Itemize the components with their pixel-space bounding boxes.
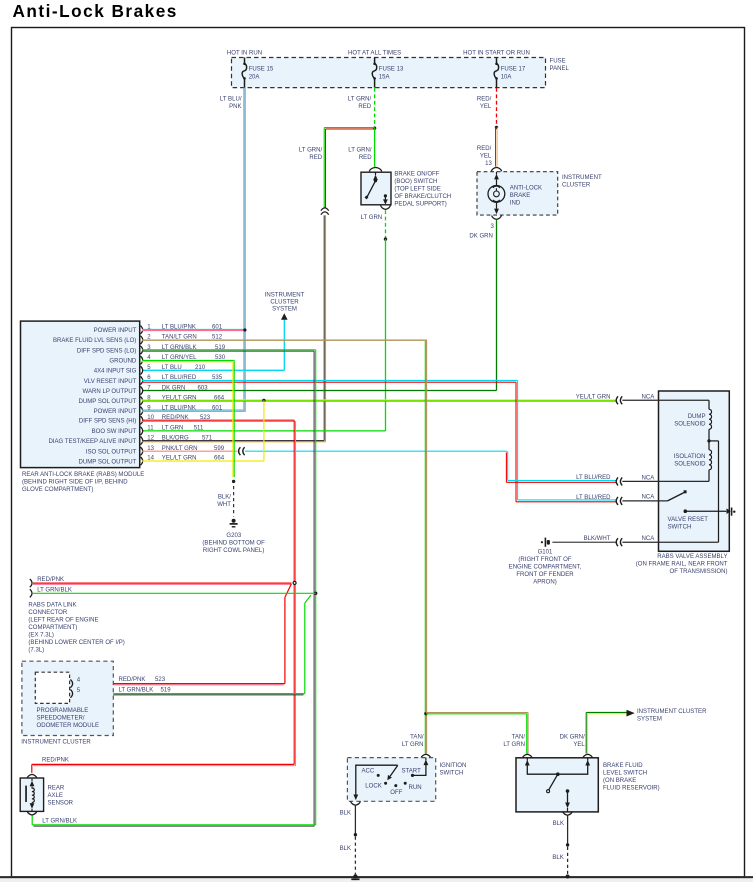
wire isolation solenoid vertical pair: [506, 451, 507, 482]
wire BLK/ORG 571 row pin 12: [142, 441, 326, 442]
svg-text:FUSE 17: FUSE 17: [501, 67, 526, 73]
svg-text:BLK/: BLK/: [218, 495, 231, 501]
label G101 (RIGHT FRONT OF ENGINE COMPARTMENT FRONT OF FENDER APRON): [509, 550, 582, 586]
label RUN: [409, 785, 422, 791]
label HOT IN START OR RUN: [463, 51, 530, 57]
module RABS rear anti-lock brake module: [21, 321, 140, 468]
svg-text:YEL: YEL: [480, 104, 492, 110]
coil dump solenoid: [709, 400, 712, 450]
wire LT GRN/BLK 519 to speedometer pin 5: [75, 694, 304, 695]
wire LT GRN/RED pair from splice to left: [324, 128, 374, 209]
inline connector BLK/WHT NCA: [616, 538, 622, 546]
svg-text:GLOVE COMPARTMENT): GLOVE COMPARTMENT): [22, 487, 93, 493]
pin 5 of speedometer module: [70, 688, 80, 698]
label BLK/WHT at G101: [584, 536, 611, 542]
svg-text:SWITCH: SWITCH: [668, 525, 692, 531]
svg-text:BRAKE FLUID LVL SENS (LO): BRAKE FLUID LVL SENS (LO): [53, 338, 136, 344]
svg-text:LT GRN/: LT GRN/: [348, 96, 372, 102]
label RABS DATA LINK CONNECTOR caption: [28, 603, 124, 654]
label DK GRN below indicator: [469, 233, 493, 239]
wire LT GRN/BLK to rear axle sensor bottom: [32, 815, 316, 826]
wire BLK/ORG 571 vertical to module pin 12: [324, 215, 325, 441]
wire LT BLU/RED 535 row pin 6: [142, 380, 518, 382]
svg-text:LT GRN/: LT GRN/: [299, 148, 323, 154]
svg-text:SPEEDOMETER/: SPEEDOMETER/: [37, 716, 85, 722]
svg-text:YEL: YEL: [480, 153, 492, 159]
svg-text:LT GRN: LT GRN: [162, 426, 184, 432]
svg-text:PEDAL SUPPORT): PEDAL SUPPORT): [394, 202, 446, 208]
svg-text:523: 523: [155, 677, 166, 683]
svg-text:FUSE: FUSE: [550, 59, 566, 65]
fuse panel box: [232, 58, 546, 88]
label IGNITION SWITCH: [440, 763, 467, 777]
wire LT BLU/RED vertical to valve reset switch: [516, 380, 518, 501]
wire LT GRN 511 down to module pin 11: [142, 239, 386, 431]
pin 5 of RABS module, 4X4 INPUT SIG, wire LT BLU 210: [94, 365, 206, 375]
svg-text:CLUSTER: CLUSTER: [270, 300, 299, 306]
fuse F15 FUSE 15 20A: [242, 58, 274, 88]
label INSTRUMENT CLUSTER SYSTEM bottom right: [637, 709, 707, 723]
svg-text:BLK: BLK: [552, 855, 563, 861]
label DUMP SOLENOID: [674, 414, 706, 428]
pin 6 of RABS module, VLV RESET INPUT, wire LT BLU/RED 535: [84, 375, 223, 385]
svg-text:ODOMETER MODULE: ODOMETER MODULE: [37, 723, 100, 729]
svg-text:REAR ANTI-LOCK BRAKE (RABS) MO: REAR ANTI-LOCK BRAKE (RABS) MODULE: [22, 472, 144, 478]
svg-text:FRONT OF FENDER: FRONT OF FENDER: [516, 572, 574, 578]
svg-text:FUSE 13: FUSE 13: [379, 67, 404, 73]
label START: [402, 769, 422, 775]
label INSTRUMENT CLUSTER at speedometer: [21, 740, 91, 746]
fuse F17 FUSE 17 10A: [494, 58, 526, 88]
svg-text:OF TRANSMISSION): OF TRANSMISSION): [669, 569, 727, 575]
junction splice on pin 8 wire: [262, 399, 265, 402]
svg-text:ISOLATION: ISOLATION: [674, 454, 706, 460]
label LT GRN/RED at fuse 13: [348, 96, 372, 110]
wire BLK/WHT dashed to G203: [233, 486, 235, 517]
svg-text:RED/PNK: RED/PNK: [37, 577, 64, 583]
label TAN/LT GRN at brake fluid switch: [503, 735, 525, 749]
label RED/PNK at data link: [37, 577, 64, 583]
pin 14 of RABS module, DUMP SOL OUTPUT, wire YEL/LT GRN 664: [79, 456, 225, 466]
svg-text:RABS VALVE ASSEMBLY: RABS VALVE ASSEMBLY: [657, 554, 727, 560]
svg-text:(LEFT REAR OF ENGINE: (LEFT REAR OF ENGINE: [28, 618, 98, 624]
svg-text:Anti-Lock Brakes: Anti-Lock Brakes: [13, 1, 178, 21]
wire PNK/LT GRN 599 row pin 13: [142, 450, 237, 452]
ground G203: [230, 519, 238, 527]
label LT GRN/BLK at rear axle sensor: [42, 819, 77, 825]
svg-text:DIAG TEST/KEEP ALIVE INPUT: DIAG TEST/KEEP ALIVE INPUT: [48, 439, 136, 445]
svg-text:NCA: NCA: [642, 395, 656, 401]
svg-text:DUMP: DUMP: [688, 414, 706, 420]
svg-text:LT GRN: LT GRN: [503, 742, 525, 748]
wire RED/PNK from data link connector: [33, 583, 291, 584]
svg-text:START: START: [402, 769, 422, 775]
wire isolation solenoid pair to connector: [506, 481, 616, 483]
label OFF: [390, 790, 402, 796]
label RED/YEL at indicator: [477, 146, 492, 160]
svg-text:601: 601: [212, 406, 223, 412]
wire LT GRN/YEL vertical to G203: [233, 360, 234, 477]
svg-text:BRAKE FLUID: BRAKE FLUID: [603, 763, 643, 769]
connector arc at BOO switch bottom: [381, 206, 391, 210]
wire TAN/LT GRN vertical to ignition switch: [425, 340, 426, 753]
label LT GRN/BLK 519 at speedometer: [119, 688, 172, 694]
module speedometer inner connector box: [35, 672, 69, 703]
connector arc at indicator top: [491, 167, 501, 171]
svg-text:20A: 20A: [249, 74, 261, 80]
svg-text:G203: G203: [226, 533, 241, 539]
svg-text:BRAKE ON/OFF: BRAKE ON/OFF: [394, 172, 439, 178]
wire TAN/LT GRN to brake fluid level switch: [426, 713, 528, 754]
label BLK/WHT at G203: [217, 495, 231, 509]
label RED/YEL at fuse 17: [477, 96, 492, 110]
wire NCA to dump solenoid: [622, 399, 709, 401]
wire RED/YEL dashed from fuse 17: [496, 88, 498, 127]
pin 4 of speedometer module: [70, 678, 80, 688]
svg-text:DUMP SOL OUTPUT: DUMP SOL OUTPUT: [79, 399, 137, 405]
label PROGRAMMABLE SPEEDOMETER/ODOMETER MODULE: [37, 708, 100, 729]
wire LT BLU/PNK 601 row pin 9: [142, 410, 246, 411]
switch ignition switch box: [347, 758, 435, 802]
wire LT BLU/PNK 601 vertical from fuse 15: [244, 88, 245, 412]
pin 11 of RABS module, BOO SW INPUT, wire LT GRN 511: [92, 426, 204, 436]
connector arc at brake fluid switch left top: [522, 754, 532, 758]
svg-text:LT GRN: LT GRN: [361, 215, 383, 221]
label BLK at ignition switch: [340, 810, 351, 816]
pin 1 of RABS module, POWER INPUT, wire LT BLU/PNK 601: [94, 325, 223, 335]
wire RED/YEL pair to anti-lock brake indicator pin 13: [496, 128, 498, 167]
svg-text:FUSE 15: FUSE 15: [249, 67, 274, 73]
inline connector dump solenoid NCA: [616, 396, 622, 404]
label TAN/LT GRN at ignition switch: [402, 735, 424, 749]
pin 3 of RABS module, DIFF SPD SENS (LO), wire LT GRN/BLK 519: [77, 345, 226, 355]
label HOT IN RUN: [227, 51, 262, 57]
svg-text:(BOO) SWITCH: (BOO) SWITCH: [394, 179, 437, 185]
label INSTRUMENT CLUSTER at indicator: [562, 175, 602, 189]
wire LT GRN/RED to BOO switch: [374, 128, 376, 167]
svg-text:(EX 7.3L): (EX 7.3L): [28, 633, 54, 639]
label ISOLATION SOLENOID: [674, 454, 706, 468]
inline connector on LT GRN/RED to BLK/ORG: [321, 208, 329, 215]
svg-text:(RIGHT FRONT OF: (RIGHT FRONT OF: [518, 557, 571, 563]
svg-text:DK GRN/: DK GRN/: [560, 735, 586, 741]
svg-text:BLK/WHT: BLK/WHT: [584, 536, 611, 542]
connector arc at rear axle sensor bottom: [27, 811, 37, 815]
connector pin RED/PNK data link: [30, 579, 32, 587]
svg-text:LT GRN: LT GRN: [402, 742, 424, 748]
svg-text:YEL: YEL: [573, 742, 585, 748]
label LT GRN/BLK at data link: [37, 588, 72, 594]
wire branch to ground side of solenoids: [709, 441, 719, 542]
svg-text:(TOP LEFT SIDE: (TOP LEFT SIDE: [394, 187, 440, 193]
label RABS VALVE ASSEMBLY caption: [636, 554, 728, 575]
label REAR ANTI-LOCK BRAKE (RABS) MODULE caption: [22, 472, 144, 493]
svg-text:SOLENOID: SOLENOID: [674, 422, 706, 428]
wire RED/PNK vertical to rear axle sensor: [294, 420, 295, 766]
junction splice on brake fluid BLK: [566, 843, 569, 846]
svg-text:IGNITION: IGNITION: [440, 763, 467, 769]
svg-text:SYSTEM: SYSTEM: [272, 307, 297, 313]
wire YEL/LT GRN 664 row pin 8 to dump solenoid: [142, 400, 617, 401]
svg-text:LT GRN/BLK: LT GRN/BLK: [42, 819, 77, 825]
svg-text:PANEL: PANEL: [550, 66, 570, 72]
svg-text:CONNECTOR: CONNECTOR: [28, 610, 67, 616]
svg-text:DK GRN: DK GRN: [469, 233, 493, 239]
wire LT GRN/BLK from data link connector: [33, 592, 316, 594]
connector arc at indicator bottom: [492, 216, 502, 220]
svg-text:511: 511: [194, 426, 204, 432]
svg-text:SOLENOID: SOLENOID: [674, 462, 706, 468]
label VALVE RESET SWITCH: [668, 517, 709, 531]
wire BLK/WHT from G101 to connector: [552, 541, 615, 543]
switch S1 brake on/off BOO switch: [361, 172, 391, 205]
connector pin LT GRN/BLK data link: [30, 589, 32, 597]
svg-text:RUN: RUN: [409, 785, 422, 791]
svg-text:OF BRAKE/CLUTCH: OF BRAKE/CLUTCH: [394, 194, 451, 200]
svg-text:RED/: RED/: [477, 146, 492, 152]
pin 4 of RABS module, GROUND, wire LT GRN/YEL 530: [109, 355, 225, 365]
wire DK GRN 603 from indicator to module pin 7: [142, 220, 497, 390]
svg-text:519: 519: [161, 688, 172, 694]
label BLK lower brake fluid: [552, 855, 563, 861]
pin 3 label of indicator: [491, 224, 495, 230]
junction splice at data link LT GRN/BLK: [314, 592, 317, 595]
label LT GRN below BOO switch: [361, 215, 383, 221]
svg-text:DIFF SPD SENS (HI): DIFF SPD SENS (HI): [79, 419, 136, 425]
svg-text:(BEHIND LOWER CENTER OF I/P): (BEHIND LOWER CENTER OF I/P): [28, 640, 124, 646]
svg-text:BLK: BLK: [340, 846, 351, 852]
label LOCK: [365, 784, 381, 790]
svg-text:HOT IN START OR RUN: HOT IN START OR RUN: [463, 51, 530, 57]
svg-text:HOT AT ALL TIMES: HOT AT ALL TIMES: [348, 51, 401, 57]
svg-text:HOT IN RUN: HOT IN RUN: [227, 51, 262, 57]
wire YEL/LT GRN 664 vertical pin 14 to pin 8 splice: [142, 400, 264, 461]
svg-text:BRAKE: BRAKE: [510, 193, 531, 199]
svg-text:TAN/: TAN/: [512, 735, 526, 741]
wire DK GRN/YEL from brake fluid switch to instrument cluster system: [586, 712, 626, 753]
svg-text:NCA: NCA: [642, 536, 656, 542]
wire BLK from brake fluid switch: [567, 816, 569, 844]
label YEL/LT GRN at valve assembly: [576, 395, 611, 401]
svg-text:REAR: REAR: [48, 786, 65, 792]
svg-text:LT BLU: LT BLU: [162, 365, 182, 371]
connector arc at rear axle sensor top: [27, 774, 37, 778]
svg-text:WARN LP OUTPUT: WARN LP OUTPUT: [83, 389, 137, 395]
svg-text:664: 664: [214, 395, 225, 401]
svg-text:(7.3L): (7.3L): [28, 648, 44, 654]
wire RED/PNK 523 to speedometer pin 4: [75, 684, 285, 685]
wire NCA BLK/WHT into valve assembly: [622, 541, 718, 543]
pin 13 of RABS module, ISO SOL OUTPUT, wire PNK/LT GRN 599: [86, 446, 225, 456]
inline connector valve reset switch NCA: [616, 497, 622, 505]
svg-text:PROGRAMMABLE: PROGRAMMABLE: [37, 708, 89, 714]
arrow to instrument cluster system bottom right: [627, 710, 635, 717]
svg-text:4X4 INPUT SIG: 4X4 INPUT SIG: [94, 369, 137, 375]
svg-text:DK GRN: DK GRN: [162, 385, 186, 391]
wire LT GRN/RED dashed from fuse 13: [374, 88, 376, 127]
ignition switch internal contacts and arm: [353, 758, 428, 801]
svg-text:BLK: BLK: [340, 810, 351, 816]
svg-text:DIFF SPD SENS (LO): DIFF SPD SENS (LO): [77, 348, 136, 354]
svg-text:APRON): APRON): [533, 580, 557, 586]
connector arc at ignition switch top: [421, 754, 431, 758]
svg-text:BLK: BLK: [553, 821, 564, 827]
ground below brake fluid switch: [566, 875, 570, 879]
svg-text:210: 210: [195, 365, 206, 371]
svg-text:RED/PNK: RED/PNK: [119, 677, 146, 683]
label BRAKE FLUID LEVEL SWITCH (ON BRAKE FLUID RESERVOIR): [603, 763, 660, 792]
svg-text:G101: G101: [538, 550, 553, 556]
wire LT GRN/BLK vertical to rear axle sensor: [314, 350, 316, 826]
label LT GRN/RED left branch: [299, 148, 323, 162]
ground G101: [541, 538, 550, 547]
svg-text:BOO SW INPUT: BOO SW INPUT: [92, 429, 137, 435]
label FUSE PANEL: [550, 59, 570, 73]
instrument cluster box at indicator: [477, 172, 558, 215]
switch brake fluid level switch: [516, 758, 598, 812]
svg-text:TAN/: TAN/: [410, 735, 424, 741]
junction splice on ignition BLK: [354, 833, 357, 836]
svg-text:SENSOR: SENSOR: [48, 801, 74, 807]
svg-text:WHT: WHT: [217, 502, 231, 508]
pin 12 of RABS module, DIAG TEST/KEEP ALIVE INPUT, wire BLK/ORG 571: [48, 435, 212, 445]
label HOT AT ALL TIMES: [348, 51, 401, 57]
pin 10 of RABS module, DIFF SPD SENS (HI), wire RED/PNK 523: [79, 415, 211, 425]
svg-text:FLUID RESERVOIR): FLUID RESERVOIR): [603, 785, 660, 791]
wire NCA to isolation solenoid: [622, 480, 709, 482]
svg-text:11: 11: [147, 426, 154, 432]
label DK GRN/YEL at brake fluid switch: [560, 735, 586, 749]
wire pin 13 cyan segment to isolation solenoid: [245, 450, 507, 452]
svg-text:NCA: NCA: [642, 476, 656, 482]
wire LT GRN dashed below BOO switch: [385, 210, 387, 238]
coil isolation solenoid: [709, 450, 712, 482]
label BRAKE ON/OFF (BOO) SWITCH: [394, 172, 451, 208]
svg-text:LOCK: LOCK: [365, 784, 381, 790]
svg-text:RED/PNK: RED/PNK: [42, 758, 69, 764]
wire BLK dashed to ground below brake fluid switch: [567, 847, 569, 875]
svg-text:PNK: PNK: [229, 104, 241, 110]
pin 7 of RABS module, WARN LP OUTPUT, wire DK GRN 603: [83, 385, 209, 395]
wire BLK from ignition switch: [354, 806, 356, 834]
wire valve reset switch pair LT BLU/RED: [516, 500, 617, 502]
svg-text:VALVE RESET: VALVE RESET: [668, 517, 709, 523]
label LT BLU/PNK at fuse 15: [220, 96, 242, 110]
connector arc at ignition switch bottom: [351, 801, 361, 805]
inline connector isolation solenoid NCA: [616, 477, 622, 485]
svg-text:LT BLU/RED: LT BLU/RED: [576, 495, 611, 501]
svg-text:(ON FRAME RAIL, NEAR FRONT: (ON FRAME RAIL, NEAR FRONT: [636, 562, 728, 568]
svg-text:RED: RED: [359, 155, 372, 161]
label LT GRN/RED at BOO switch: [348, 148, 372, 162]
module programmable speedometer/odometer instrument cluster box: [22, 661, 113, 735]
label LT BLU/RED at valve reset switch: [576, 495, 611, 501]
label NCA valve reset switch: [642, 495, 656, 501]
svg-text:RED/: RED/: [477, 96, 492, 102]
svg-text:GROUND: GROUND: [109, 358, 137, 364]
svg-text:LT GRN/BLK: LT GRN/BLK: [37, 588, 72, 594]
pin 8 of RABS module, DUMP SOL OUTPUT, wire YEL/LT GRN 664: [79, 395, 225, 405]
svg-text:RABS DATA LINK: RABS DATA LINK: [28, 603, 76, 609]
junction splice on LT GRN: [384, 237, 387, 240]
junction splice in valve assembly: [707, 439, 710, 442]
svg-text:INSTRUMENT: INSTRUMENT: [265, 293, 305, 299]
connector arc at brake fluid switch right top: [583, 754, 593, 758]
svg-text:ACC: ACC: [362, 769, 375, 775]
svg-text:SYSTEM: SYSTEM: [637, 717, 662, 723]
label NCA isolation solenoid: [642, 476, 656, 482]
svg-text:15A: 15A: [379, 74, 391, 80]
svg-text:10A: 10A: [501, 74, 513, 80]
label BLK at brake fluid switch: [553, 821, 564, 827]
junction splice pin1/fuse15 wire: [243, 328, 246, 331]
svg-text:LT BLU/RED: LT BLU/RED: [576, 475, 611, 481]
svg-text:LEVEL SWITCH: LEVEL SWITCH: [603, 770, 647, 776]
label G203 (BEHIND BOTTOM OF RIGHT COWL PANEL): [202, 533, 265, 554]
svg-text:NCA: NCA: [642, 495, 656, 501]
svg-text:LT GRN/BLK: LT GRN/BLK: [119, 688, 154, 694]
label REAR AXLE SENSOR: [48, 786, 74, 807]
svg-text:RED: RED: [358, 104, 371, 110]
title Anti-Lock Brakes: [13, 1, 178, 21]
connector arc at brake fluid switch bottom: [563, 811, 573, 815]
svg-text:RIGHT COWL PANEL): RIGHT COWL PANEL): [203, 548, 264, 554]
svg-text:13: 13: [485, 161, 492, 167]
fuse F13 FUSE 13 15A: [372, 58, 404, 88]
svg-text:(ON BRAKE: (ON BRAKE: [603, 778, 636, 784]
wire LT BLU/PNK 601 row pin 1: [142, 329, 246, 330]
svg-text:DUMP SOL OUTPUT: DUMP SOL OUTPUT: [79, 459, 137, 465]
pin 13 label of indicator: [485, 161, 492, 167]
junction splice on RED/YEL: [495, 126, 498, 129]
svg-text:(BEHIND BOTTOM OF: (BEHIND BOTTOM OF: [202, 541, 265, 547]
svg-text:IND: IND: [510, 201, 521, 207]
svg-text:POWER INPUT: POWER INPUT: [94, 409, 137, 415]
connector at valve assembly right edge: [727, 508, 736, 516]
wire BLK dashed to ground below ignition switch: [354, 837, 356, 875]
connector arc at BOO switch top: [369, 167, 381, 171]
wire LT GRN/YEL 530 row pin 4: [142, 360, 234, 361]
svg-text:ISO SOL OUTPUT: ISO SOL OUTPUT: [86, 450, 137, 456]
svg-text:VLV RESET INPUT: VLV RESET INPUT: [84, 379, 137, 385]
svg-text:AXLE: AXLE: [48, 793, 63, 799]
junction splice on LT GRN/RED: [373, 127, 376, 130]
wire RED/PNK jog to speedometer: [285, 584, 292, 684]
svg-text:ANTI-LOCK: ANTI-LOCK: [510, 186, 542, 192]
svg-text:YEL/LT GRN: YEL/LT GRN: [576, 395, 611, 401]
svg-text:RED: RED: [309, 155, 322, 161]
label BLK lower ignition: [340, 846, 351, 852]
wire RED/PNK to rear axle sensor top: [32, 764, 296, 772]
wire LT GRN/BLK 519 row pin 3: [142, 350, 316, 351]
wire LT GRN/BLK jog to speedometer: [305, 595, 311, 694]
svg-text:INSTRUMENT: INSTRUMENT: [562, 175, 602, 181]
arrow to instrument cluster system: [281, 313, 288, 320]
sensor rear axle sensor: [20, 778, 43, 811]
junction splice at ignition switch branch: [424, 712, 427, 715]
wire RED/PNK 523 row pin 10: [142, 420, 296, 421]
svg-text:INSTRUMENT CLUSTER: INSTRUMENT CLUSTER: [637, 709, 707, 715]
svg-text:YEL/LT GRN: YEL/LT GRN: [162, 395, 197, 401]
label ACC: [362, 769, 375, 775]
svg-text:INSTRUMENT CLUSTER: INSTRUMENT CLUSTER: [21, 740, 91, 746]
label RED/PNK 523 at speedometer: [119, 677, 166, 683]
ground below ignition switch: [351, 874, 359, 879]
pin 2 of RABS module, BRAKE FLUID LVL SENS (LO), wire TAN/LT GRN 512: [53, 335, 223, 345]
wire TAN/LT GRN 512 row pin 2: [142, 339, 427, 341]
label ANTI-LOCK BRAKE IND: [510, 186, 542, 207]
label NCA dump solenoid: [642, 395, 656, 401]
